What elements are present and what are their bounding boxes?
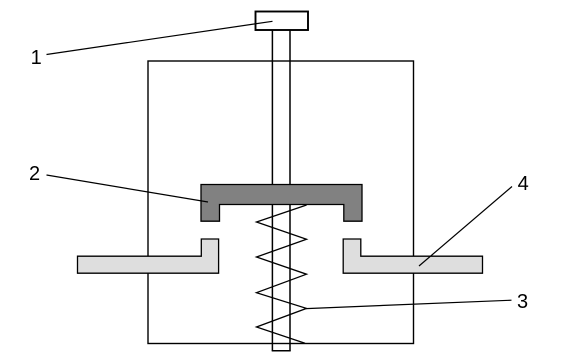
- leader line 4: [419, 187, 512, 267]
- leader line 1: [47, 21, 273, 54]
- stem bottom edge: [272, 350, 291, 352]
- left flange: [78, 239, 219, 273]
- cap 1 (stem top plate): [256, 12, 309, 31]
- valve body outline: [148, 61, 414, 344]
- svg-text:4: 4: [518, 173, 529, 195]
- spring 3: [257, 205, 307, 343]
- bracket 2 (dark channel): [201, 185, 362, 222]
- svg-text:1: 1: [31, 47, 42, 69]
- leader line 2: [47, 175, 209, 202]
- right flange: [343, 239, 482, 273]
- svg-text:3: 3: [517, 291, 528, 313]
- leader line 3: [306, 300, 512, 308]
- svg-text:2: 2: [29, 163, 40, 185]
- stem left wire: [271, 30, 273, 351]
- stem right wire: [289, 30, 291, 351]
